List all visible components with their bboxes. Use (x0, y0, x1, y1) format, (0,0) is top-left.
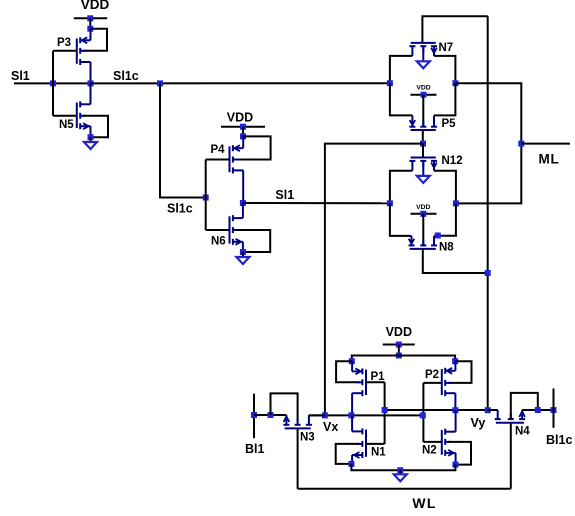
wire N8 gate down (423, 249, 488, 273)
node N3 bulk junction (268, 412, 274, 418)
svg-text:Sl1: Sl1 (275, 188, 294, 202)
wire left gate riser (384, 382, 386, 444)
wire Vy cross line (385, 409, 498, 411)
node TG1 right rail (452, 80, 458, 86)
svg-text:Vx: Vx (323, 420, 338, 434)
wire N5 drain pin (90, 83, 92, 104)
wire P5 gate down (422, 130, 424, 144)
wire N12 bulk stub (422, 161, 424, 175)
power VDD bar (N8 bulk) (411, 213, 437, 215)
transistor P4 (230, 145, 244, 173)
svg-text:N6: N6 (211, 236, 226, 248)
wire Bl1c bitline (553, 389, 555, 428)
wire P1 drain pin (351, 393, 353, 415)
wire Bl1 bitline (253, 394, 255, 439)
svg-text:Vy: Vy (471, 416, 486, 430)
wire P4 gate input (206, 159, 230, 161)
node Vx vertical junction (322, 412, 328, 418)
wire Sl1 net (243, 202, 390, 204)
svg-text:Bl1: Bl1 (245, 442, 265, 456)
wire Vy to N4 (488, 409, 498, 411)
wire VDD to P4 source node (242, 127, 244, 137)
svg-text:Sl1c: Sl1c (167, 202, 193, 216)
wire WL (298, 488, 511, 490)
wire N2 source pin (455, 453, 457, 465)
svg-text:N3: N3 (300, 432, 315, 444)
transistor N7 (409, 43, 437, 56)
svg-text:Sl1: Sl1 (11, 69, 30, 83)
transistor P3 (77, 37, 91, 65)
svg-text:Sl1c: Sl1c (113, 69, 139, 83)
bulk arrow N12 (417, 176, 430, 183)
wire N6 bulk loop (236, 230, 270, 252)
wire P2 bulk loop (448, 361, 471, 383)
power VDD bar (SRAM) (383, 344, 415, 346)
wire ML (521, 143, 570, 145)
node N1 source (348, 461, 354, 467)
wire Vx cross line (309, 414, 423, 416)
node ML tap (518, 141, 524, 147)
wire N1 source pin (351, 455, 353, 464)
wire P4 bulk loop (236, 136, 271, 159)
node N2 source (452, 462, 458, 468)
wire N3 bulk loop (271, 393, 298, 421)
node N4 bulk junction (535, 407, 541, 413)
wire P3 drain pin (90, 62, 92, 83)
node TG2 right rail (453, 200, 459, 206)
node P1 source (349, 358, 355, 364)
junction VDD bar P5 (421, 92, 427, 98)
wire TG2 right rail (434, 203, 456, 235)
wire N1 bulk loop (336, 444, 360, 464)
wire P3 bulk loop (83, 29, 107, 51)
junction VDD bar SRAM (396, 342, 402, 348)
wire N6 drain pin (242, 203, 244, 218)
wire TG1 right rail (434, 83, 455, 115)
wire Sl1 input (14, 82, 91, 84)
transistor N4 (495, 410, 525, 423)
node P3 source (87, 26, 93, 32)
transistor N6 (230, 215, 243, 245)
node ground rail (397, 467, 403, 473)
svg-text:VDD: VDD (416, 85, 430, 92)
wire N7 left leg (390, 56, 413, 83)
svg-text:N4: N4 (515, 426, 530, 438)
node Sl1 input junction (50, 80, 56, 86)
wire N2 bulk loop (448, 442, 471, 465)
wire to ground inv1 (90, 137, 92, 142)
wire P4 source pin (242, 136, 244, 148)
wire P3 gate input (53, 50, 77, 52)
wire N3 gate to WL (297, 428, 299, 488)
node Sl1c input junction inv2 (203, 195, 209, 201)
wire P2 source pin (454, 361, 456, 371)
wire N5 gate input (53, 115, 77, 117)
wire N7 right leg (434, 56, 455, 83)
wire gate riser inv1 (52, 51, 54, 116)
svg-text:P5: P5 (442, 118, 457, 130)
transistor N12 (409, 158, 437, 171)
node Vx drains (348, 412, 354, 418)
node P2 source (452, 358, 458, 364)
junction VDD rail (396, 353, 402, 359)
svg-text:ML: ML (539, 152, 560, 167)
wire Vy long vertical (487, 16, 489, 410)
wire gate riser inv2 (205, 160, 207, 231)
wire TG1 left rail (390, 83, 413, 115)
svg-text:N5: N5 (59, 119, 74, 131)
wire to ground SRAM (399, 470, 401, 474)
wire N4 gate to WL (510, 423, 512, 489)
wire P1 source pin (351, 361, 353, 371)
node Bl1c (551, 407, 557, 413)
transistor N1 (352, 428, 366, 458)
svg-text:P1: P1 (371, 371, 386, 383)
svg-text:N2: N2 (422, 445, 437, 457)
junction VDD bar N8 (420, 211, 426, 217)
node Sl1c output (88, 80, 94, 86)
svg-text:VDD: VDD (416, 204, 430, 211)
node N8 drain corner (435, 233, 441, 239)
junction Sl1c riser (157, 80, 163, 86)
wire N1 gate input (366, 443, 385, 445)
ground (SRAM) (394, 474, 407, 481)
wire N2 drain pin (455, 410, 457, 432)
svg-text:N1: N1 (371, 447, 386, 459)
transistor N8 (409, 236, 438, 249)
transistor P5 (409, 115, 437, 130)
power VDD bar (P5 bulk) (411, 94, 437, 96)
node N5 source / ground (88, 134, 94, 140)
svg-text:VDD: VDD (386, 325, 412, 339)
wire Sl1c net (91, 82, 390, 84)
wire P3 source pin (90, 29, 92, 41)
junction VDD bar inv1 (87, 15, 93, 21)
wire P5 bulk (422, 95, 424, 127)
svg-text:P3: P3 (57, 37, 71, 49)
svg-text:P4: P4 (211, 144, 226, 156)
node Vy drains (452, 407, 458, 413)
node Vy left gates (382, 407, 388, 413)
power VDD bar (inverter 1) (74, 17, 108, 19)
transistor N3 (283, 415, 312, 428)
wire N1 drain pin (351, 415, 353, 431)
junction VDD bar inv2 (240, 124, 246, 130)
wire N12 left leg (390, 171, 413, 204)
wire N7 bulk stub (422, 46, 424, 60)
node Bl1 (251, 412, 257, 418)
wire N8 bulk (422, 214, 424, 246)
wire P1 bulk loop (336, 361, 359, 382)
svg-text:WL: WL (412, 495, 436, 511)
wire N6 source pin (242, 242, 244, 252)
node Vy vertical junction (485, 407, 491, 413)
wire to ground inv2 (242, 252, 244, 257)
wire P2 drain pin (454, 393, 456, 410)
ground (inverter 1) (84, 142, 97, 149)
power VDD bar (inverter 2) (221, 126, 265, 128)
transistor P2 (442, 368, 456, 396)
svg-text:VDD: VDD (81, 0, 110, 12)
transistor N5 (77, 101, 91, 129)
svg-text:N8: N8 (439, 242, 454, 254)
wire VDD to P3 source node (89, 18, 91, 28)
transistor N2 (442, 429, 456, 456)
wire Sl1c riser down (160, 83, 206, 197)
wire VDD rail (352, 356, 455, 362)
wire P2 gate input (423, 382, 441, 384)
node Sl1 output inv2 (240, 200, 246, 206)
wire N2 gate input (423, 441, 441, 443)
wire Vx net riser (325, 144, 423, 416)
wire Bl1 to N3 (254, 414, 286, 416)
svg-text:N12: N12 (442, 155, 463, 167)
transistor P1 (352, 368, 366, 396)
node Vx right gates (420, 412, 426, 418)
wire N7 gate to top rail (422, 16, 487, 43)
wire N5 source pin (90, 126, 92, 137)
svg-text:N7: N7 (439, 42, 454, 54)
ground (inverter 2) (236, 257, 249, 264)
node pass gates junction (420, 141, 426, 147)
wire P1 gate input (366, 381, 385, 383)
wire TG1 right to ML rail (455, 83, 521, 203)
wire N5 bulk loop (83, 116, 108, 137)
node TG1 left rail (387, 80, 393, 86)
wire TG2 left rail (390, 203, 412, 236)
wire N4 to Bl1c (522, 409, 553, 411)
wire N4 bulk loop (511, 393, 538, 419)
node P4 source (240, 133, 246, 139)
wire right gate riser (422, 383, 424, 442)
svg-text:Bl1c: Bl1c (546, 433, 572, 447)
node N6 source / ground (240, 249, 246, 255)
bulk arrow N7 (417, 61, 430, 68)
wire VDD drop (398, 345, 400, 356)
wire N3 to Vx (309, 414, 325, 416)
svg-text:VDD: VDD (227, 111, 253, 125)
wire N12 gate up (422, 144, 424, 158)
wire N6 gate input (206, 229, 230, 231)
node N8 gate / Vy vertical (485, 270, 491, 276)
wire P4 drain pin (242, 170, 244, 203)
node TG2 left rail (387, 200, 393, 206)
wire N12 right leg (434, 171, 456, 204)
svg-text:P2: P2 (425, 369, 439, 381)
wire ground rail SRAM (351, 464, 455, 470)
